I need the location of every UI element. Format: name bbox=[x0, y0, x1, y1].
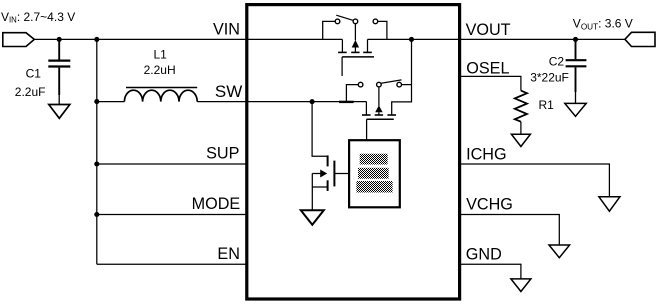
Q1 gate bar bbox=[342, 56, 374, 58]
Q3 bulk arrow bbox=[312, 173, 321, 175]
svg-text:R1: R1 bbox=[539, 98, 555, 112]
junction rail-SW bbox=[94, 99, 99, 104]
Q3 gate bar bbox=[333, 161, 335, 187]
junction rail-MODE bbox=[94, 212, 99, 217]
wire SUP bbox=[97, 163, 247, 165]
capacitor C2 bbox=[566, 39, 587, 103]
S2 left leg bbox=[346, 85, 358, 102]
junction C2 tap bbox=[573, 37, 578, 42]
svg-text:OSEL: OSEL bbox=[466, 59, 509, 77]
S1 left leg bbox=[323, 21, 336, 39]
svg-text:SW: SW bbox=[215, 82, 242, 101]
redacted text line 3 bbox=[356, 181, 392, 193]
Q3 drain lead bbox=[312, 102, 328, 157]
wire EN bbox=[97, 263, 247, 265]
Q1 left terminal drop bbox=[341, 39, 343, 51]
Q3 channel bottom segment bbox=[327, 180, 329, 191]
Q2 gate bar bbox=[367, 118, 394, 120]
wire VCHG bbox=[460, 215, 560, 246]
svg-text:VIN: 2.7~4.3 V: VIN: 2.7~4.3 V bbox=[1, 10, 75, 25]
svg-text:C2: C2 bbox=[549, 55, 565, 69]
ground ICHG bbox=[599, 197, 620, 211]
transistor Q1 top PMOS pair bbox=[338, 24, 374, 76]
svg-text:VIN: VIN bbox=[213, 21, 240, 39]
S1 terminal common bbox=[353, 19, 358, 24]
transistor Q2 lower PMOS pair bbox=[362, 87, 396, 140]
Q3 channel top segment bbox=[327, 155, 329, 166]
switch S1 bulk select top bbox=[323, 15, 387, 39]
Q2 bulk arrow bbox=[378, 87, 380, 106]
Q1 gate lead bbox=[341, 57, 343, 76]
wire VIN rail vertical bbox=[96, 39, 98, 264]
Q1 contact bars bbox=[338, 51, 347, 53]
switch S2 bulk select lower bbox=[346, 80, 411, 102]
wire ICHG bbox=[460, 164, 610, 197]
junction rail tap bbox=[94, 37, 99, 42]
svg-text:VOUT: VOUT bbox=[466, 21, 511, 39]
redacted text line 1 bbox=[360, 154, 388, 165]
wire SW net left bbox=[97, 101, 125, 103]
Q2 gate lead bbox=[366, 119, 368, 140]
svg-text:SUP: SUP bbox=[206, 145, 239, 163]
S2 terminal b bbox=[397, 82, 402, 87]
svg-text:MODE: MODE bbox=[192, 195, 241, 213]
S2 terminal a bbox=[358, 82, 363, 87]
ground C1 bbox=[49, 105, 70, 119]
svg-text:2.2uH: 2.2uH bbox=[144, 63, 176, 77]
wire SW joint thick segment bbox=[339, 101, 354, 103]
Q3 gate wire to U2 bbox=[334, 173, 349, 175]
S1 lever bbox=[336, 15, 353, 20]
capacitor C1 bbox=[48, 39, 70, 104]
block U2 driver box bbox=[349, 140, 400, 207]
wire VOUT net bbox=[368, 38, 625, 40]
Q2 contact bars bbox=[362, 114, 371, 116]
S1 terminal b bbox=[373, 19, 378, 24]
Q2 left terminal drop bbox=[365, 102, 367, 115]
svg-text:C1: C1 bbox=[26, 66, 42, 80]
ground VCHG bbox=[549, 245, 570, 258]
Q3 source lead bbox=[312, 186, 327, 188]
wire bulk drop vertical bbox=[392, 39, 412, 115]
svg-text:2.2uF: 2.2uF bbox=[15, 85, 46, 99]
S2 lever bbox=[381, 80, 402, 83]
ground C2 bbox=[565, 103, 586, 116]
redacted text line 2 bbox=[358, 168, 389, 179]
ground R1 bbox=[511, 134, 530, 146]
Q1 bulk arrow bbox=[354, 24, 356, 41]
junction rail-SUP bbox=[94, 161, 99, 166]
Q1 right terminal rise bbox=[367, 39, 369, 51]
wire VIN net bbox=[34, 38, 342, 40]
wire GND bbox=[460, 264, 521, 279]
IC U1 outline bbox=[247, 5, 460, 299]
svg-text:VCHG: VCHG bbox=[466, 195, 513, 213]
node VIN input connector bbox=[3, 33, 35, 47]
svg-text:3*22uF: 3*22uF bbox=[530, 71, 569, 85]
svg-text:GND: GND bbox=[466, 246, 502, 264]
Q3 source vertical bbox=[311, 174, 313, 211]
inductor L1 bbox=[124, 88, 197, 102]
wire SW net right bbox=[197, 101, 366, 103]
transistor Q3 NMOS bbox=[312, 102, 349, 211]
resistor R1 bbox=[515, 91, 527, 122]
junction C1 tap bbox=[57, 37, 62, 42]
S2 right leg bbox=[402, 84, 412, 86]
junction SW-Q3 drain bbox=[310, 99, 315, 104]
svg-text:ICHG: ICHG bbox=[466, 145, 506, 163]
S1 right leg bbox=[378, 21, 387, 39]
node VOUT output connector bbox=[625, 32, 655, 46]
wire R1 to ground bbox=[520, 122, 522, 135]
S1 terminal a bbox=[335, 19, 340, 24]
ground GND bbox=[511, 279, 531, 292]
wire OSEL bbox=[460, 76, 521, 90]
svg-text:VOUT: 3.6 V: VOUT: 3.6 V bbox=[573, 17, 633, 32]
ground Q3 source bbox=[301, 210, 324, 225]
S2 terminal common bbox=[377, 82, 382, 87]
junction VOUT bulk drop bbox=[409, 37, 414, 42]
svg-text:EN: EN bbox=[217, 245, 240, 263]
wire MODE bbox=[97, 214, 247, 216]
svg-text:L1: L1 bbox=[154, 48, 168, 62]
